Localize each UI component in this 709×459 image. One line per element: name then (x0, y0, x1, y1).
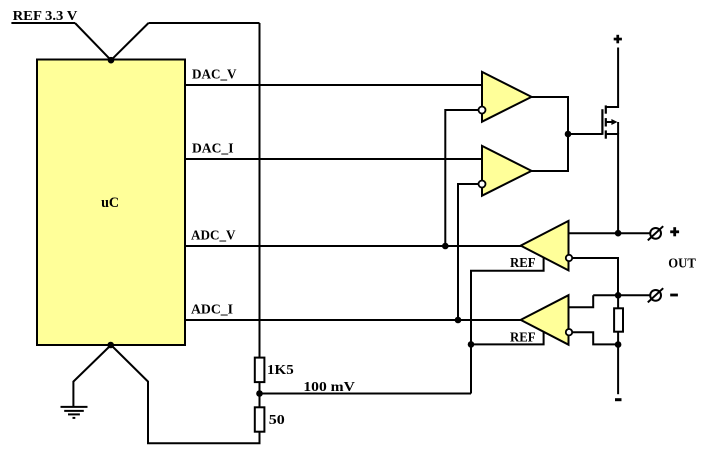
wire R3 bottom node down to - rail (617, 331, 619, 395)
svg-text:REF 3.3 V: REF 3.3 V (13, 9, 78, 24)
comparator A3 inverting bubble (566, 255, 572, 261)
svg-text:REF: REF (510, 330, 536, 345)
wire ADC_I feedback to buffer A2 inverting input (458, 184, 482, 320)
wire R3 bottom to comparator A4 inverting input (569, 332, 618, 344)
ground symbol (61, 407, 88, 418)
transistor Q1 body arrow (606, 121, 612, 123)
transistor Q1 channel segment bottom (source) (605, 130, 607, 138)
buffer op-amp A1 (482, 72, 532, 122)
wire R1 bottom through 100mV node to R2 top (259, 381, 261, 408)
junction dot 100mV node (256, 390, 263, 397)
junction dot uC ground pin (107, 342, 114, 349)
junction dot R3 bottom node (615, 341, 622, 348)
transistor Q1 body to source wire (617, 122, 619, 134)
wire buffer A1 output to gate node (532, 97, 569, 134)
wire ADC_I from uC to comparator A4 output tip (185, 319, 521, 321)
junction dot ADC_I feedback (455, 317, 462, 324)
svg-text:OUT: OUT (668, 256, 696, 271)
wire comparator A4 REF input (471, 332, 544, 345)
svg-text:ADC_I: ADC_I (191, 303, 233, 318)
minus mark -OUT terminal (670, 294, 678, 297)
svg-text:DAC_V: DAC_V (192, 68, 237, 83)
wire REF 3.3V rail: label underline segment (11, 22, 75, 24)
minus mark bottom rail (615, 398, 622, 401)
buffer A2 inverting bubble (479, 181, 486, 188)
buffer A1 inverting bubble (479, 107, 486, 114)
junction dot +OUT node (615, 230, 622, 237)
transistor Q1 MOSFET gate bar (601, 109, 603, 135)
wire buffer A2 output to gate node (532, 134, 569, 171)
wire MOSFET source down to +OUT line (606, 134, 618, 233)
junction dot uC top pin (108, 57, 115, 64)
terminal +OUT circle (648, 226, 663, 240)
wire comparator A3 inverting input to -OUT node (569, 258, 618, 295)
resistor R3 shunt (614, 308, 623, 331)
wire -OUT node down to shunt resistor R3 (617, 295, 619, 309)
wire comparator A4 non-inverting input to -OUT node (569, 295, 594, 307)
transistor Q1 channel segment top (drain) (605, 105, 607, 113)
junction dot ADC_V feedback (442, 243, 449, 250)
comparator A3 (521, 221, 569, 271)
transistor Q1 channel segment middle (body) (605, 118, 607, 126)
wire REF 3.3V rail: top horizontal (149, 22, 260, 24)
wire gate node to MOSFET gate (568, 133, 602, 135)
wire -OUT line to terminal (593, 294, 650, 296)
microcontroller uC (37, 60, 185, 346)
terminal -OUT circle (648, 288, 663, 302)
wire MOSFET drain to + supply (606, 48, 618, 108)
wire REF 3.3V rail: vertical drop to resistor R1 (259, 23, 261, 359)
comparator A4 inverting bubble (566, 329, 572, 335)
wire REF 3.3V rail: diagonal from label to uC top pin (75, 23, 111, 60)
svg-text:DAC_I: DAC_I (192, 142, 234, 157)
wire 100mV node horizontal to comparator REF line (260, 393, 472, 395)
plus mark +OUT terminal (670, 227, 679, 236)
svg-text:1K5: 1K5 (267, 363, 294, 378)
wire +OUT line to terminal (569, 232, 651, 234)
wire ADC_V from uC to comparator A3 output tip (185, 245, 521, 247)
wire REF 3.3V rail: diagonal from uC top pin up right (111, 23, 149, 60)
wire DAC_I from uC to buffer A2 (185, 158, 482, 160)
svg-text:ADC_V: ADC_V (191, 229, 236, 244)
junction dot REF line (468, 341, 475, 348)
wire 100mV vertical up to REF junction (470, 344, 472, 393)
svg-text:uC: uC (101, 195, 119, 211)
plus mark top supply (614, 35, 622, 44)
wire DAC_V from uC to buffer A1 (185, 84, 482, 86)
resistor R2 50 (255, 407, 265, 431)
svg-text:100 mV: 100 mV (303, 380, 355, 395)
wire uC ground pin to ground symbol (73, 345, 111, 407)
comparator A4 (521, 295, 569, 345)
wire R2 bottom to ground rail (111, 345, 260, 443)
junction dot gate node (565, 131, 572, 138)
wire ADC_V feedback to buffer A1 inverting input (445, 110, 482, 246)
svg-text:50: 50 (269, 413, 285, 428)
svg-text:REF: REF (510, 256, 536, 271)
junction dot -OUT node (615, 292, 622, 299)
resistor R1 1K5 (255, 358, 265, 383)
wire comparator A3 REF input (471, 258, 544, 345)
buffer op-amp A2 (482, 146, 532, 196)
